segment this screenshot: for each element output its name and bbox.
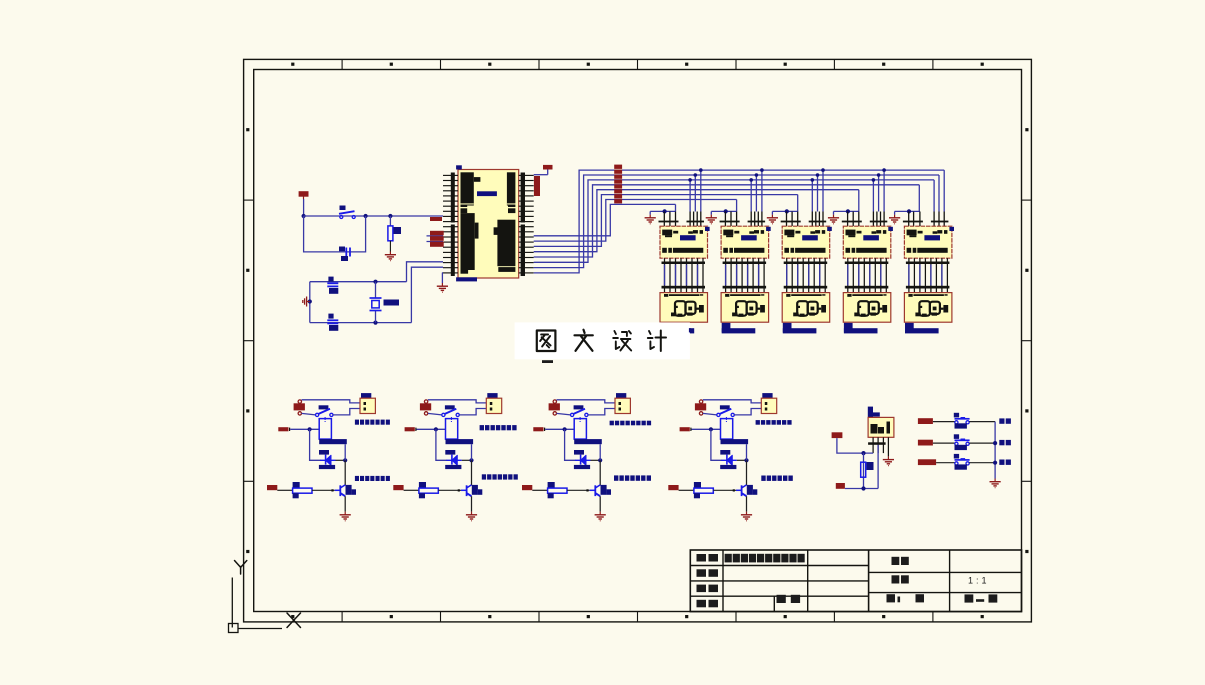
watermark glyph tu (picture) [537,331,556,352]
relay circuit 1 wire label-to-resistor [277,489,292,491]
wire module1 riser tap [689,180,691,212]
zone mark top [685,63,688,66]
relay circuit 2 label top [480,425,484,430]
module 4 ground wire [834,210,859,212]
module 5 ground wire [895,210,920,212]
relay circuit 1 transistor label [346,485,352,495]
relay circuit 3 diode D [575,459,591,461]
pullup resistor label [867,462,874,470]
relay circuit 3 label top [610,421,614,426]
crystal Y1 label [384,300,400,306]
module 1 ground [649,215,651,218]
module 4 display icon [858,301,869,316]
relay circuit 1 node coil-left [308,427,312,431]
relay circuit 3 wire switch-to-header [588,409,615,415]
relay circuit 3 wire diode-node-to-collector [599,460,601,485]
stray text mark [542,360,553,363]
module 3 pin row upper bar [784,262,828,265]
module 4 chip text [846,230,856,236]
relay circuit 3 coil net label [533,427,543,431]
frame zone divider right [1022,340,1032,342]
button 2 label [999,440,1004,445]
relay circuit 2 switch label [445,405,455,409]
junction module2 tap [760,168,764,172]
relay circuit 3 wire diode branch [565,429,576,460]
relay circuit 1 switch [316,413,319,416]
module 1 top pins left [663,212,665,227]
module 4 pin row upper bar [845,262,889,265]
resistor R1 [388,226,393,241]
zone mark bottom [882,615,885,618]
module 2 top pins right [750,212,752,227]
frame zone divider bottom [440,612,442,622]
relay circuit 1 wire plug-to-switch [302,413,316,415]
relay circuit 4 base resistor net label [668,485,678,490]
wire buttons common [994,422,996,479]
button 1 label [999,418,1004,423]
module 2 interconnect pins [725,258,727,292]
sensor data net label [836,483,845,489]
frame zone divider top [440,59,442,69]
module 3 net label [783,323,792,333]
module 2 pin row lower bar [723,286,767,289]
mcu right pins [519,174,534,176]
module 4 interconnect pins [847,258,849,292]
sensor pin bar [868,442,886,445]
relay circuit 4 switch [717,413,720,416]
zone mark bottom [685,615,688,618]
module 4 pin name bars top [842,221,862,223]
junction module1 tap [694,173,698,177]
frame zone divider top [637,59,639,69]
module 5 pin row upper bar [906,262,950,265]
module 5 chip bottom text [907,248,912,253]
relay circuit 2 wire relay-to-diode-node [471,444,473,460]
mcu left pins [443,174,458,176]
module 4 top pins right [872,212,874,227]
bus wire P0.2 [534,180,934,262]
relay circuit 2 wire plug-to-header top [428,400,487,403]
button 1 key switch [954,413,959,418]
relay circuit 4 resistor label top [694,482,701,488]
module 3 pin row lower bar [784,286,828,289]
relay circuit 1 resistor label bottom [293,493,299,498]
relay circuit 2 resistor label bottom [419,493,425,498]
junction module3 tap [816,173,820,177]
relay circuit 4 wire diode-to-collector [737,459,747,461]
module 4 top pins left [847,212,849,227]
relay circuit 2 plug connector [420,403,431,410]
module 3 chip label [802,235,818,240]
relay circuit 3 wire label-to-coil [545,428,574,430]
bus wire P0.4 [534,190,859,252]
relay circuit 4 wire label-to-coil [692,428,721,430]
mcu designator square [456,165,462,169]
watermark glyph ji (plan) [648,331,654,349]
relay circuit 4 header label [762,393,772,398]
node button 3 [993,461,997,465]
relay circuit 3 node collector [598,458,602,462]
module 5 ground node [907,209,911,213]
module 1 interconnect pins [664,258,666,292]
module 3 interconnect pins [786,258,788,292]
frame zone divider top [735,59,737,69]
zone mark bottom [587,615,590,618]
bus wire P0.3 drop [918,185,920,212]
title block right-section row lines [869,571,1022,573]
wire stubs under net labels [427,235,444,237]
mcu part-number label [477,191,497,196]
module 3 chip corner square [827,227,832,231]
wire crystal leads [375,282,377,298]
zone mark right [1025,550,1028,553]
frame zone divider bottom [538,612,540,622]
junction module4 tap [872,178,876,182]
button 2 wire right [969,442,995,444]
relay circuit 3 header label [616,393,626,398]
frame zone divider top [538,59,540,69]
module 2 chip text [723,230,733,236]
module 2 display body [721,293,769,323]
junction module2 tap [755,173,759,177]
relay circuit 3 wire label-to-resistor [532,489,547,491]
wire resistor to ground [389,241,391,252]
relay circuit 2 header label [487,393,497,398]
relay circuit 1 diode D [320,459,336,461]
relay circuit 4 label bottom [761,476,765,481]
relay circuit 4 node coil-left [709,427,713,431]
relay circuit 2 ground [471,512,473,515]
sensor pins [872,437,874,453]
zone mark bottom [390,615,393,618]
module 5 interconnect pins [908,258,910,292]
bus wire P0.1 [534,175,939,268]
frame zone divider bottom [833,612,835,622]
zone mark right [1025,128,1028,131]
sensor body text [871,424,878,434]
module 2 ground [710,215,712,218]
relay circuit 4 transistor Q [736,489,742,491]
wire module4 riser tap [878,175,880,212]
relay circuit 1 diode label [319,450,329,455]
relay circuit 4 diode D [721,459,737,461]
mcu pin numbers right [521,173,525,223]
title block right-section mid column [949,550,951,612]
relay circuit 4 wire resistor-to-base [713,489,736,491]
resistor R1 label [394,227,402,234]
capacitor C2 [327,319,338,321]
wire xtal left rail [309,282,311,323]
relay circuit 2 wire emitter-to-ground [471,496,473,511]
module 1 label tip [689,328,691,332]
relay circuit 1 wire switch-to-header [333,409,360,415]
capacitor C3 [345,248,347,257]
relay circuit 2 switch dotted link [451,417,452,418]
relay circuit 3 resistor label top [548,482,555,488]
module 2 chip corner square [766,227,771,231]
relay circuit 3 switch label [574,405,584,409]
module 1 chip text [662,230,672,236]
zone mark bottom [488,615,491,618]
relay circuit 1 switch dotted link [325,417,326,418]
relay circuit 1 relay bar [319,439,347,444]
net labels on bus [614,165,622,169]
capacitor C3 label [339,247,345,252]
capacitor C1 label [328,277,333,282]
relay circuit 3 base arrow [586,489,588,491]
zone mark left [246,550,249,553]
relay circuit 1 wire plug-to-header top [302,400,361,403]
module 5 top pins left [908,212,910,227]
module 3 driver chip body [782,226,830,258]
button 2 key switch [954,434,959,439]
relay circuit 2 coil net label [405,427,415,431]
relay circuit 1 coil net label [278,427,288,431]
bus wire P0.7 drop [675,204,677,211]
relay circuit 4 wire diode-node-to-collector [746,460,748,485]
module 3 pin name bars top [781,221,801,223]
relay circuit 4 relay coil [721,419,733,440]
relay circuit 4 coil net label [680,427,690,431]
frame zone divider right [1022,480,1032,482]
relay circuit 4 diode label [720,450,730,455]
button 1 wire left [933,421,955,423]
relay circuit 1 header [360,398,375,413]
module 3 display body [782,293,830,323]
button 3 label [999,460,1004,465]
relay circuit 4 switch dotted link [726,417,727,418]
wire module2 riser tap [761,170,763,211]
relay circuit 3 wire diode-to-collector [591,459,601,461]
relay circuit 4 transistor label [747,485,753,495]
title block outline [690,550,1021,612]
module 4 net label [844,323,853,333]
module 4 display body [843,293,891,323]
module 4 ground [833,215,835,218]
junction module1 tap [688,178,692,182]
relay circuit 4 wire plug-to-header top [703,400,762,403]
relay circuit 2 node coil-left [434,427,438,431]
relay circuit 1 wire label-to-coil [290,428,319,430]
wire module3 riser tap [817,175,819,212]
module 3 chip bottom text [784,248,789,253]
relay circuit 1 switch label [319,405,329,409]
zone mark top [587,63,590,66]
vcc power bar reset [299,191,309,197]
title block left-section row lines [690,565,868,567]
title block column line student-no [773,596,775,611]
label zhitu (drawn) [697,569,707,577]
axis Y line [231,578,233,628]
relay circuit 4 wire emitter-to-ground [746,496,748,511]
zone mark top [784,63,787,66]
relay circuit 3 transistor Q [590,489,596,491]
node button 2 [993,441,997,445]
label shending (approved) [697,600,707,608]
button 3 key switch [954,454,959,459]
button 3 wire left [936,462,955,464]
button 3 net label [918,459,936,465]
module 3 display top text [786,294,790,297]
module 1 display icon [675,301,686,316]
relay circuit 2 wire switch-to-header [459,409,486,415]
sensor DS18B20 body [868,417,894,437]
relay circuit 4 switch label [720,405,730,409]
bus wire P0.5 [534,195,798,247]
label sheji (design) [697,554,707,562]
relay circuit 4 label top [756,420,760,425]
bus wire P0.3 [534,185,920,257]
relay circuit 3 wire plug-to-switch [557,413,571,415]
label xuehao (student no) [777,595,786,603]
module 5 driver chip body [904,226,952,258]
label bili (scale) [892,575,900,583]
module 2 chip bottom text [723,248,728,253]
relay circuit 2 relay bar [446,439,474,444]
module 1 driver chip body [660,226,708,258]
mcu pin numbers left [451,173,455,223]
wire xtal2 up to mcu [411,267,443,322]
wire resistor branch [389,216,391,226]
relay circuit 3 wire emitter-to-ground [599,496,601,511]
relay circuit 3 ground [599,512,601,515]
relay circuit 1 label bottom [355,476,359,481]
zone mark bottom [291,615,294,618]
frame zone divider bottom [341,612,343,622]
mcu pin names left column [461,172,474,205]
relay circuit 3 diode label [574,450,584,455]
module 2 top pins left [724,212,726,227]
zone mark left [246,409,249,412]
relay circuit 1 transistor Q [335,489,341,491]
module 3 top pins right [811,212,813,227]
wire data riser [877,445,879,489]
module 5 display top text [908,294,912,297]
junction module3 tap [811,178,815,182]
relay circuit 3 switch dotted link [580,417,581,418]
relay circuit 1 plug connector [294,403,305,410]
relay circuit 1 wire diode-to-collector [336,459,346,461]
relay circuit 2 transistor label [472,485,478,495]
zone mark left [246,269,249,272]
mcu pin name row gaps [461,203,474,204]
zone mark bottom [981,615,984,618]
relay circuit 3 switch [571,413,574,416]
junction module1 tap [699,168,703,172]
relay circuit 2 diode D [446,459,462,461]
wire module4 riser tap [883,170,885,211]
mcu net labels right [534,176,540,196]
module 1 pin row lower bar [662,286,706,289]
label jiaohe (checked) [697,585,707,593]
axis origin box [229,624,239,633]
relay circuit 1 base arrow [331,489,333,491]
relay circuit 4 relay bar [721,439,749,444]
relay circuit 4 wire label-to-resistor [679,489,694,491]
module 3 ground wire [772,210,797,212]
node crystal bottom [373,321,377,325]
wire module3 riser tap [822,170,824,211]
relay circuit 1 ground [344,512,346,515]
relay circuit 1 resistor label top [293,482,300,488]
zone mark right [1025,269,1028,272]
svg-text:1:1: 1:1 [968,575,990,585]
node reset-left [302,214,306,218]
frame zone divider bottom [637,612,639,622]
mcu net labels left big [430,231,444,236]
sensor vcc net label [832,432,843,438]
bus wire P0.6 drop [736,200,738,212]
relay circuit 3 base resistor [548,488,567,493]
module 2 chip label [741,235,757,240]
wire module2 riser tap [750,180,752,212]
module 5 display body [904,293,952,323]
zone mark top [882,63,885,66]
relay circuit 4 base arrow [733,489,735,491]
module 1 display body [660,293,708,323]
node sensor pullup top [861,451,865,455]
relay circuit 3 wire plug-to-header top [557,400,616,403]
frame zone divider top [932,59,934,69]
bus wire P0.1 drop [938,175,940,212]
relay circuit 4 resistor label bottom [694,493,700,498]
project title text [725,554,732,563]
module 1 chip label [680,235,696,240]
module 4 chip corner square [888,227,893,231]
vcc power flag at EA pin [534,174,548,176]
module 3 display icon [797,301,808,316]
relay circuit 3 plug connector [549,403,560,410]
wire module2 riser tap [755,175,757,212]
zone mark top [390,63,393,66]
pullup resistor [861,462,866,477]
relay circuit 4 wire plug-to-switch [703,413,717,415]
inner frame border [254,70,1022,612]
module 2 net label [722,323,731,333]
frame zone divider left [244,199,254,201]
relay circuit 1 relay coil [319,419,331,440]
node resistor branch [388,214,392,218]
module 1 net label [661,323,670,333]
capacitor C1 [327,282,338,284]
module 2 driver chip body [721,226,769,258]
ground buttons [994,479,996,482]
wire reset rail [304,215,443,217]
relay circuit 2 diode label [445,450,455,455]
zone mark top [981,63,984,66]
module 5 chip corner square [949,227,954,231]
wire module4 riser tap [872,180,874,212]
node sensor data [861,486,865,490]
wire module1 riser tap [694,175,696,212]
module 5 ground [894,215,896,218]
relay circuit 2 transistor Q [461,489,467,491]
push button S1 [339,211,355,214]
wire xtal top rail [310,281,376,283]
ground crystal [307,301,310,303]
wire xtal1 up to mcu [407,262,444,282]
relay circuit 2 header [486,398,501,413]
button 1 wire right [969,421,995,423]
relay circuit 2 base resistor net label [393,485,403,490]
module 2 ground node [724,209,728,213]
frame zone divider right [1022,199,1032,201]
bus wire P0.2 drop [933,180,935,212]
wire module1 riser tap [700,170,702,211]
relay circuit 1 wire resistor-to-base [312,489,335,491]
module 4 driver chip body [843,226,891,258]
ground reset resistor [389,252,391,255]
